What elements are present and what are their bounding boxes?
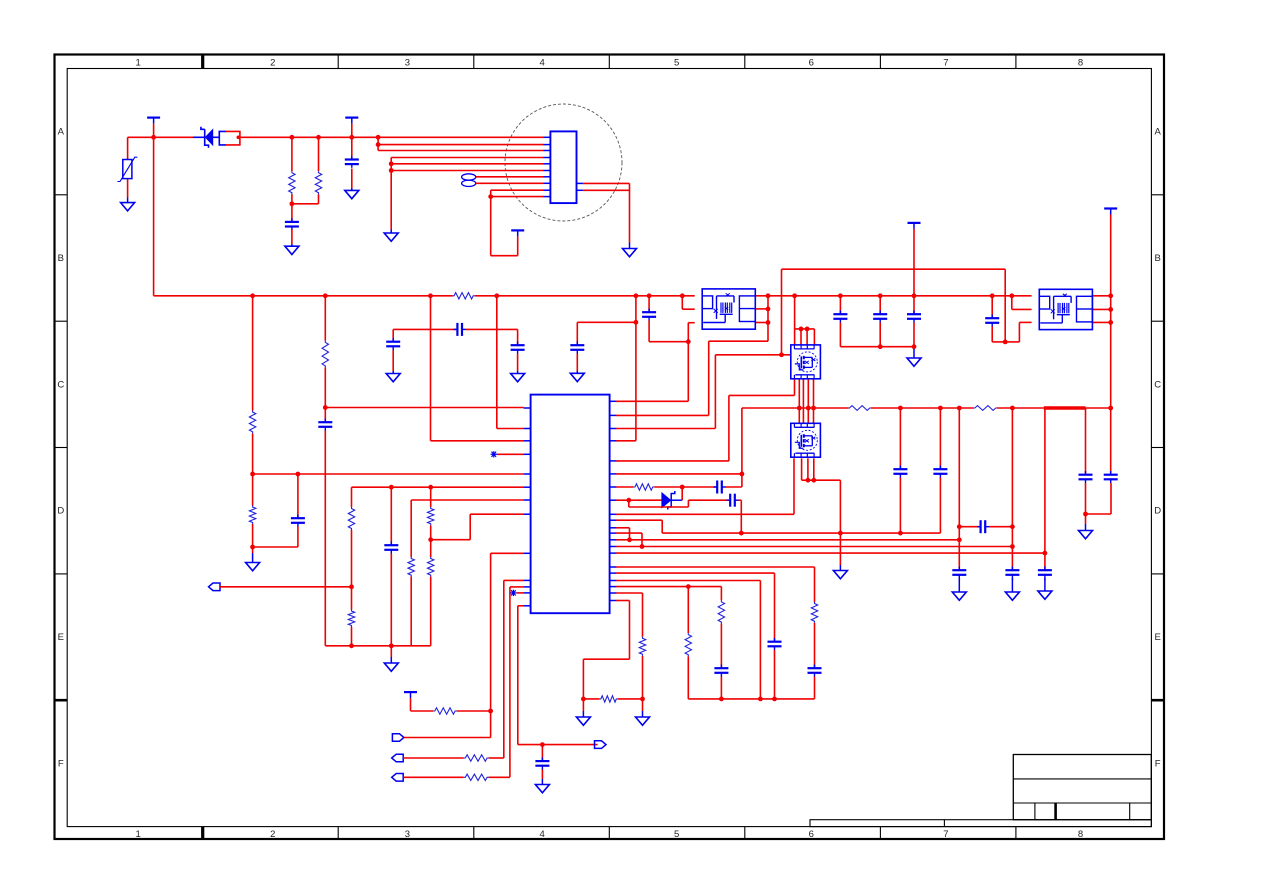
junction bbox=[811, 406, 816, 411]
port NTC bbox=[209, 583, 221, 591]
wire bbox=[616, 528, 630, 540]
wire bbox=[616, 269, 1005, 428]
wire bbox=[755, 309, 768, 323]
wire bbox=[491, 553, 524, 737]
svg-text:E: E bbox=[58, 632, 64, 643]
svg-text:C: C bbox=[1154, 379, 1161, 390]
junction bbox=[250, 472, 255, 477]
junction bbox=[323, 293, 328, 298]
wire bbox=[802, 379, 804, 424]
junction bbox=[349, 643, 354, 648]
svg-text:F: F bbox=[58, 758, 64, 769]
resistor R18 bbox=[685, 633, 691, 656]
junction bbox=[1010, 406, 1015, 411]
svg-text:F: F bbox=[1155, 758, 1161, 769]
junction bbox=[349, 135, 354, 140]
wire bbox=[1011, 408, 1013, 580]
resistor R3 bbox=[453, 293, 475, 299]
resistor R10 bbox=[428, 507, 434, 525]
capacitor C6 bbox=[535, 757, 549, 769]
inductor L1 bbox=[849, 406, 871, 411]
wire bbox=[411, 499, 523, 501]
junction bbox=[428, 293, 433, 298]
ground bbox=[384, 230, 398, 242]
junction bbox=[838, 293, 843, 298]
fuse F1 bbox=[219, 131, 240, 145]
capacitor C24 bbox=[873, 311, 887, 323]
drawing frame with zone labels bbox=[55, 55, 1165, 840]
capacitor C25 bbox=[907, 311, 921, 323]
port bbox=[392, 734, 404, 742]
junction bbox=[898, 406, 903, 411]
resistor R7 bbox=[348, 507, 354, 530]
capacitor C21 bbox=[1079, 471, 1093, 483]
wire bbox=[794, 329, 796, 345]
wire bbox=[1092, 309, 1111, 322]
junction bbox=[290, 201, 295, 206]
junction bbox=[376, 135, 381, 140]
svg-text:B: B bbox=[58, 253, 64, 264]
wire bbox=[807, 458, 809, 480]
svg-text:3: 3 bbox=[405, 57, 410, 68]
ground bbox=[285, 244, 299, 255]
power bar bbox=[511, 230, 524, 236]
junction bbox=[739, 531, 744, 536]
wire bbox=[1092, 295, 1111, 297]
ground bbox=[570, 371, 584, 382]
junction bbox=[250, 545, 255, 550]
wire bbox=[616, 323, 695, 402]
wire bbox=[649, 296, 688, 342]
capacitor C9 bbox=[570, 342, 584, 354]
wire bbox=[352, 486, 524, 488]
junction bbox=[1009, 293, 1014, 298]
resistor R20 bbox=[599, 696, 617, 702]
svg-text:2: 2 bbox=[270, 829, 275, 840]
wire bbox=[351, 487, 353, 646]
port bbox=[392, 774, 404, 782]
junction bbox=[640, 697, 645, 702]
wire bbox=[795, 296, 815, 329]
junction bbox=[938, 406, 943, 411]
junction bbox=[792, 293, 797, 298]
svg-text:5: 5 bbox=[674, 829, 679, 840]
wire bbox=[913, 296, 915, 347]
wire bbox=[616, 379, 795, 461]
wire bbox=[616, 593, 643, 711]
capacitor C23 bbox=[833, 311, 847, 323]
wire bbox=[959, 526, 1012, 528]
wire bbox=[616, 581, 760, 699]
wire bbox=[411, 698, 491, 711]
wire bbox=[517, 329, 519, 371]
resistor R8 bbox=[348, 610, 354, 627]
junction bbox=[806, 478, 811, 483]
capacitor C2 bbox=[345, 156, 359, 168]
wire bbox=[583, 183, 630, 242]
capacitor C15 bbox=[893, 466, 907, 478]
wire bbox=[390, 646, 392, 657]
wire bbox=[497, 296, 524, 429]
resistor R4 bbox=[249, 411, 255, 434]
wire bbox=[404, 737, 491, 739]
title block bbox=[1013, 755, 1151, 820]
wire bbox=[476, 177, 544, 184]
wire varistor branch bbox=[127, 137, 129, 197]
junction bbox=[766, 293, 771, 298]
wire bbox=[813, 458, 815, 480]
svg-text:C: C bbox=[57, 379, 64, 390]
svg-text:6: 6 bbox=[809, 57, 814, 68]
junction bbox=[806, 406, 811, 411]
power bar bbox=[345, 118, 358, 124]
ground bbox=[386, 371, 400, 382]
svg-text:D: D bbox=[57, 506, 64, 517]
wire bbox=[616, 474, 742, 487]
port bbox=[595, 741, 607, 749]
junction bbox=[957, 524, 962, 529]
junction bbox=[1010, 524, 1015, 529]
wire pins 4-6 bbox=[391, 158, 543, 230]
wire bbox=[616, 520, 662, 533]
junction bbox=[758, 697, 763, 702]
wire bbox=[913, 347, 915, 349]
junction bbox=[634, 320, 639, 325]
wire bbox=[1110, 408, 1112, 474]
wire bbox=[583, 698, 642, 700]
junction bbox=[1043, 551, 1048, 556]
wire bbox=[687, 587, 689, 699]
wire bbox=[616, 533, 642, 546]
zener diode D1 bbox=[193, 127, 219, 148]
capacitor C27 bbox=[768, 638, 782, 650]
junction bbox=[766, 320, 771, 325]
wire pins 9-10 bbox=[491, 190, 544, 256]
junction bbox=[811, 478, 816, 483]
ground bbox=[1005, 579, 1019, 601]
wire 533 bus bbox=[662, 532, 940, 534]
wire bbox=[616, 408, 742, 474]
wire 553.1 bus bbox=[616, 552, 1045, 554]
thick bus segment bbox=[1044, 406, 1086, 409]
svg-text:A: A bbox=[58, 127, 65, 138]
wire bbox=[1110, 215, 1112, 409]
wire bbox=[798, 379, 800, 424]
wire bbox=[325, 407, 523, 409]
junction bbox=[680, 293, 685, 298]
wire pins 1-3 bbox=[378, 137, 543, 150]
junction bbox=[1108, 406, 1113, 411]
resistor R2 bbox=[315, 171, 321, 194]
MOSFET Q1 bbox=[791, 345, 821, 379]
ground bbox=[907, 349, 921, 366]
junction bbox=[1108, 320, 1113, 325]
wire bbox=[813, 329, 815, 345]
ground bbox=[121, 198, 135, 211]
resistor R11 bbox=[428, 557, 434, 577]
annotation circle bbox=[505, 104, 622, 221]
svg-text:8: 8 bbox=[1078, 57, 1083, 68]
ground bbox=[636, 711, 650, 725]
ground bbox=[1038, 579, 1052, 600]
wire bbox=[518, 606, 598, 745]
svg-text:4: 4 bbox=[539, 57, 544, 68]
junction bbox=[838, 531, 843, 536]
wire bbox=[1086, 408, 1112, 514]
svg-text:3: 3 bbox=[405, 829, 410, 840]
junction bbox=[389, 168, 394, 173]
wire bbox=[325, 645, 430, 647]
diode D2 bbox=[662, 491, 682, 510]
wire bbox=[839, 296, 841, 347]
wire 539.8 bus bbox=[616, 539, 959, 541]
no-connect star bbox=[491, 451, 497, 457]
junction bbox=[878, 344, 883, 349]
wire feedback bbox=[253, 473, 524, 475]
capacitor C3 bbox=[291, 515, 305, 527]
svg-text:1: 1 bbox=[136, 57, 141, 68]
wire bbox=[879, 296, 881, 347]
wire power feed bbox=[153, 124, 155, 296]
wire bbox=[1012, 296, 1032, 310]
resistor R9 bbox=[408, 557, 414, 577]
junction bbox=[719, 697, 724, 702]
wire bbox=[807, 379, 809, 424]
junction bbox=[957, 406, 962, 411]
junction bbox=[428, 537, 433, 542]
svg-text:6: 6 bbox=[809, 829, 814, 840]
capacitor C12 bbox=[511, 342, 525, 354]
wire bbox=[220, 586, 352, 588]
resistor R19 bbox=[639, 637, 645, 656]
wire bbox=[1085, 514, 1087, 524]
resistor R14 bbox=[464, 774, 489, 780]
wire bbox=[324, 296, 326, 646]
capacitor C18 bbox=[977, 520, 989, 533]
junction bbox=[990, 293, 995, 298]
wire bbox=[801, 458, 803, 480]
resistor R1 bbox=[289, 171, 295, 194]
capacitor C28 bbox=[714, 665, 728, 677]
power bar bbox=[908, 223, 921, 229]
capacitor C4 bbox=[318, 419, 332, 431]
wire bbox=[510, 587, 524, 777]
power bar bbox=[1104, 209, 1117, 215]
resistor R15 bbox=[634, 484, 655, 490]
svg-text:D: D bbox=[1154, 506, 1161, 517]
junction bbox=[640, 544, 645, 549]
junction bbox=[1108, 293, 1113, 298]
wire bbox=[577, 322, 636, 371]
capacitor C7 bbox=[642, 309, 656, 321]
junction bbox=[779, 352, 784, 357]
wire bbox=[616, 296, 636, 441]
capacitor C14 bbox=[727, 494, 739, 507]
junction bbox=[1108, 307, 1113, 312]
svg-text:B: B bbox=[1155, 253, 1161, 264]
wire bbox=[410, 500, 412, 646]
capacitor C19 bbox=[1005, 567, 1019, 579]
wire bbox=[899, 408, 901, 533]
wire bbox=[939, 408, 941, 533]
resistor R12 bbox=[433, 708, 456, 714]
junction bbox=[680, 485, 685, 490]
twisted pair symbol bbox=[462, 174, 476, 187]
power module U2 bbox=[702, 289, 755, 329]
junction bbox=[647, 293, 652, 298]
junction bbox=[488, 194, 493, 199]
wire bbox=[240, 136, 544, 138]
wire main bus bbox=[154, 295, 695, 297]
wire bbox=[681, 487, 683, 500]
junction bbox=[957, 537, 962, 542]
junction bbox=[627, 537, 632, 542]
junction bbox=[634, 293, 639, 298]
junction bbox=[799, 327, 804, 332]
wire bbox=[1005, 322, 1031, 342]
wire bbox=[291, 230, 293, 245]
resistor R6 bbox=[322, 341, 328, 368]
junction bbox=[323, 405, 328, 410]
wire VIN bus bbox=[128, 136, 193, 138]
wire bbox=[252, 296, 254, 553]
ground bbox=[576, 711, 590, 725]
junction bbox=[376, 142, 381, 147]
ground bbox=[952, 579, 966, 601]
wire bbox=[431, 514, 524, 540]
capacitor C11 bbox=[386, 338, 400, 350]
junction bbox=[898, 531, 903, 536]
wire bbox=[430, 487, 432, 646]
junction bbox=[250, 293, 255, 298]
wire bbox=[253, 474, 298, 547]
wire bbox=[616, 573, 775, 699]
junction bbox=[290, 135, 295, 140]
resistor R16 bbox=[811, 602, 817, 623]
ground bbox=[384, 657, 398, 671]
wire bbox=[403, 776, 510, 778]
wire bbox=[682, 296, 694, 309]
svg-text:1: 1 bbox=[136, 829, 141, 840]
capacitor C26 bbox=[808, 665, 822, 677]
junction bbox=[540, 742, 545, 747]
junction bbox=[878, 293, 883, 298]
capacitor C13 bbox=[714, 481, 726, 494]
ground bbox=[246, 553, 260, 571]
junction bbox=[912, 293, 917, 298]
capacitor C16 bbox=[933, 466, 947, 478]
no-connect star bbox=[510, 590, 516, 596]
power bar bbox=[404, 692, 417, 698]
svg-text:7: 7 bbox=[943, 57, 948, 68]
wire bbox=[517, 592, 524, 594]
svg-text:A: A bbox=[1155, 127, 1162, 138]
wire 546.5 bus bbox=[616, 546, 1012, 548]
wire bbox=[616, 296, 768, 416]
wire bbox=[800, 329, 802, 345]
resistor R13 bbox=[464, 755, 489, 761]
wire bbox=[802, 480, 841, 565]
junction bbox=[1083, 512, 1088, 517]
revision strip bbox=[810, 820, 1151, 827]
junction bbox=[1003, 340, 1008, 345]
capacitor C5 bbox=[384, 542, 398, 554]
svg-text:2: 2 bbox=[270, 57, 275, 68]
wire bbox=[292, 137, 319, 204]
wire switch-node bus bbox=[755, 295, 1031, 297]
wire bbox=[390, 487, 392, 646]
wire bbox=[616, 499, 662, 501]
junction bbox=[389, 161, 394, 166]
svg-text:8: 8 bbox=[1078, 829, 1083, 840]
wire underpass bbox=[629, 500, 742, 533]
wire bbox=[392, 329, 394, 371]
ground bbox=[535, 779, 549, 793]
capacitor C17 bbox=[952, 567, 966, 579]
wire bbox=[616, 567, 815, 699]
port bbox=[392, 754, 404, 762]
svg-text:7: 7 bbox=[943, 829, 948, 840]
junction bbox=[772, 697, 777, 702]
junction bbox=[912, 344, 917, 349]
capacitor C10 bbox=[454, 323, 466, 336]
wire bbox=[806, 329, 808, 345]
wire bbox=[958, 408, 960, 580]
wire bbox=[351, 124, 353, 188]
wire bbox=[616, 587, 721, 699]
junction bbox=[740, 472, 745, 477]
wire bbox=[1044, 408, 1046, 580]
wire bottom bus bbox=[688, 698, 814, 700]
junction bbox=[349, 584, 354, 589]
MOSFET Q2 bbox=[791, 423, 821, 457]
wire bbox=[497, 453, 524, 455]
junction bbox=[766, 307, 771, 312]
ground bbox=[511, 371, 525, 382]
wire bbox=[813, 379, 815, 424]
varistor RV1 bbox=[118, 157, 138, 181]
resistor R5 bbox=[249, 506, 255, 525]
ground bbox=[623, 243, 637, 257]
capacitor C8 bbox=[985, 315, 999, 327]
wire bbox=[431, 296, 524, 441]
junction bbox=[805, 327, 810, 332]
junction bbox=[686, 339, 691, 344]
junction bbox=[488, 709, 493, 714]
ground bbox=[833, 565, 847, 579]
capacitor C22 bbox=[1104, 471, 1118, 483]
junction bbox=[428, 485, 433, 490]
ground bbox=[1079, 524, 1093, 539]
wire bbox=[291, 137, 293, 220]
power bar VCC bbox=[147, 118, 160, 124]
wire bbox=[403, 757, 504, 759]
wire bbox=[393, 328, 517, 330]
wire bbox=[992, 296, 1005, 342]
wire gate bus bbox=[742, 407, 1111, 409]
capacitor C1 bbox=[285, 218, 299, 230]
wire bbox=[583, 601, 629, 712]
junction bbox=[389, 485, 394, 490]
junction bbox=[1010, 544, 1015, 549]
junction bbox=[316, 135, 321, 140]
inductor L2 bbox=[974, 406, 997, 411]
wire bbox=[840, 346, 914, 348]
wire bbox=[616, 458, 794, 514]
IC U1 controller bbox=[524, 395, 617, 614]
junction bbox=[581, 697, 586, 702]
ground bbox=[345, 188, 359, 199]
